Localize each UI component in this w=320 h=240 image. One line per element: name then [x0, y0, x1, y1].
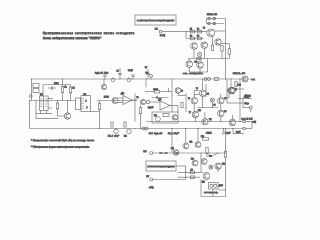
svg-text:Гн5: Гн5: [155, 29, 158, 31]
svg-text:С1 0,5: С1 0,5: [54, 83, 59, 85]
svg-text:С9: С9: [214, 105, 216, 107]
svg-text:Т10: Т10: [195, 62, 198, 64]
svg-text:Т4: Т4: [235, 89, 237, 91]
svg-text:R4: R4: [73, 88, 75, 90]
svg-text:Т8: Т8: [224, 111, 226, 113]
svg-text:С14: С14: [171, 148, 174, 150]
svg-text:Сд-48: Сд-48: [226, 133, 230, 135]
svg-text:Т3: Т3: [196, 88, 198, 90]
svg-text:R28: R28: [201, 136, 204, 138]
svg-text:МП40-Б9: МП40-Б9: [207, 14, 217, 16]
svg-text:МП41-Б9: МП41-Б9: [233, 73, 245, 75]
svg-text:Сд4-48 Гн2: Сд4-48 Гн2: [95, 73, 108, 75]
svg-text:в систему блока воспроизведени: в систему блока воспроизведения: [137, 20, 175, 22]
svg-text:R16: R16: [198, 110, 201, 112]
svg-text:R4: R4: [197, 36, 199, 38]
svg-text:Тр1: Тр1: [40, 94, 43, 96]
svg-text:R2: R2: [65, 87, 67, 89]
svg-text:к блокам воспроизведения: к блокам воспроизведения: [148, 166, 175, 168]
svg-text:Гн АЦ: Гн АЦ: [160, 34, 166, 37]
svg-text:Т12: Т12: [190, 142, 193, 144]
svg-text:R7: R7: [145, 67, 147, 69]
svg-text:блока избирательных системы: блока избирательных системы “СВИРЬ”: [43, 37, 101, 40]
svg-text:Т15: Т15: [202, 182, 205, 184]
svg-text:Гн3 Сд4-48: Гн3 Сд4-48: [149, 133, 162, 135]
svg-text:Т7: Т7: [189, 112, 191, 114]
svg-text:Тр3: Тр3: [154, 115, 157, 117]
svg-text:R24: R24: [238, 85, 241, 87]
svg-text:Т5: Т5: [188, 98, 190, 100]
svg-text:Выход: Выход: [244, 97, 249, 99]
svg-text:R3: R3: [190, 36, 192, 38]
svg-text:С5: С5: [117, 71, 119, 73]
svg-text:Гн3: Гн3: [146, 73, 149, 75]
svg-text:Т11: Т11: [209, 119, 212, 121]
svg-text:Тр2: Тр2: [84, 94, 87, 96]
svg-text:Т2: Т2: [181, 91, 183, 93]
svg-text:19,0 кГц**: 19,0 кГц**: [168, 133, 179, 135]
svg-text:Гн6: Гн6: [144, 151, 147, 153]
svg-text:зап. синхроимп.: зап. синхроимп.: [183, 73, 204, 75]
svg-text:СВуч: СВуч: [245, 103, 249, 105]
svg-text:Гн4: Гн4: [124, 136, 127, 138]
svg-text:Д808: Д808: [219, 185, 223, 187]
svg-text:Т9: Т9: [203, 28, 205, 30]
svg-text:Т13: Т13: [191, 159, 194, 161]
svg-text:вых: вых: [252, 79, 255, 81]
svg-text:Принципиальная электрическая: Принципиальная электрическая схема зонод…: [43, 32, 135, 35]
svg-text:Вкл: Вкл: [209, 156, 212, 158]
svg-text:** Изображена форма пилообразн: ** Изображена форма пилообразного напряж…: [31, 145, 90, 148]
svg-text:Т6: Т6: [224, 98, 226, 100]
svg-text:+12,6 В: +12,6 В: [206, 133, 212, 135]
svg-text:СБ: СБ: [191, 170, 193, 172]
svg-text:Т14: Т14: [222, 164, 225, 166]
svg-text:к АЦ: к АЦ: [149, 186, 154, 189]
svg-text:19,0 кГц*: 19,0 кГц*: [108, 136, 119, 138]
svg-text:Л1: Л1: [207, 94, 209, 96]
svg-text:Гн7: Гн7: [147, 176, 150, 178]
svg-text:Т2: Т2: [137, 97, 139, 99]
svg-text:* Напряжение частотой 19,0 кГ: * Напряжение частотой 19,0 кГц на выходе…: [31, 139, 95, 142]
svg-text:Сд4-48: Сд4-48: [148, 107, 153, 109]
svg-text:С6 0,5: С6 0,5: [128, 70, 133, 72]
svg-text:МП39: МП39: [104, 97, 109, 99]
